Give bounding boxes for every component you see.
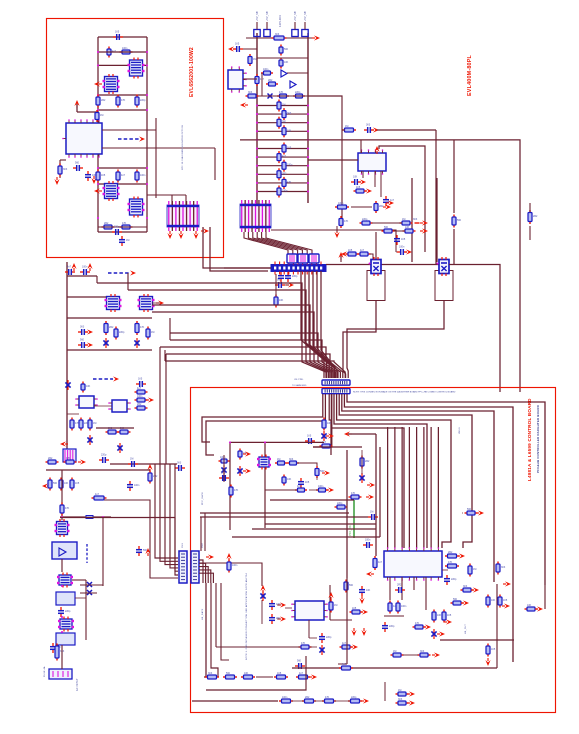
resistor R98 bbox=[525, 607, 538, 611]
resistor R35 bbox=[346, 252, 359, 256]
svg-text:100n: 100n bbox=[263, 68, 269, 71]
wire bbox=[462, 512, 463, 514]
resistor R63 bbox=[238, 449, 242, 460]
power port bbox=[156, 300, 164, 305]
svg-text:100n: 100n bbox=[137, 395, 143, 398]
wire bbox=[102, 517, 104, 586]
wire bbox=[85, 580, 87, 640]
filter block FL2 bbox=[56, 633, 75, 645]
resistor R109 bbox=[396, 692, 409, 696]
wire bbox=[170, 464, 178, 568]
wire bbox=[192, 700, 278, 702]
wire bbox=[297, 463, 317, 467]
dashed net by bridge bbox=[86, 544, 88, 563]
wire bbox=[215, 583, 217, 647]
svg-text:560: 560 bbox=[453, 598, 458, 601]
svg-text:560: 560 bbox=[282, 121, 287, 124]
junction node bbox=[307, 104, 309, 106]
wire bbox=[395, 242, 397, 252]
wire row5 bbox=[98, 167, 147, 169]
wire bbox=[60, 516, 111, 518]
wire bbox=[334, 394, 427, 548]
resistor R4 bbox=[116, 95, 120, 108]
svg-text:220p: 220p bbox=[114, 226, 120, 229]
power port bbox=[85, 342, 93, 347]
resistor R41 bbox=[135, 321, 139, 335]
svg-text:220p: 220p bbox=[140, 99, 146, 102]
svg-text:1K5: 1K5 bbox=[447, 614, 452, 617]
resistor R84 bbox=[461, 588, 474, 592]
svg-text:220p: 220p bbox=[337, 502, 343, 505]
power port bbox=[243, 468, 251, 473]
wire bbox=[277, 618, 280, 620]
resistor R83 bbox=[468, 564, 472, 577]
resistor R5 bbox=[135, 95, 139, 108]
wire row2 bbox=[98, 64, 147, 66]
svg-text:560: 560 bbox=[384, 226, 389, 229]
capacitor Cx10 bbox=[285, 272, 291, 282]
svg-text:2R2: 2R2 bbox=[48, 457, 53, 460]
junction node bbox=[256, 113, 258, 115]
capacitor C18 bbox=[383, 196, 389, 206]
svg-text:1M: 1M bbox=[151, 331, 154, 334]
svg-text:220p: 220p bbox=[295, 91, 301, 94]
svg-text:3K3: 3K3 bbox=[208, 672, 213, 675]
svg-text:47K: 47K bbox=[140, 326, 145, 329]
power port bbox=[351, 628, 356, 636]
wire bbox=[206, 656, 306, 690]
power port bbox=[367, 482, 375, 487]
resistor R68 bbox=[315, 466, 319, 478]
resistor R27 bbox=[354, 189, 367, 193]
resistor R72b bbox=[320, 444, 333, 448]
svg-text:1K5: 1K5 bbox=[356, 186, 361, 189]
junction node bbox=[146, 51, 148, 53]
svg-text:CN1: CN1 bbox=[182, 542, 184, 548]
wire bbox=[199, 573, 213, 583]
resistor R112 bbox=[48, 478, 52, 491]
transformer T1 bbox=[128, 58, 145, 79]
svg-text:NTC 10 OHM INRUSH LIMITER OPTI: NTC 10 OHM INRUSH LIMITER OPTION bbox=[182, 125, 184, 170]
resistor R86 bbox=[432, 610, 436, 623]
junction node bbox=[97, 94, 99, 96]
svg-text:10K: 10K bbox=[366, 589, 371, 592]
wire harness bbox=[257, 232, 302, 254]
connector bbox=[287, 254, 297, 263]
resistor R101 bbox=[223, 675, 237, 679]
wire bbox=[396, 251, 397, 253]
wire rung bbox=[257, 95, 308, 97]
svg-text:47K: 47K bbox=[122, 222, 127, 225]
wire bbox=[304, 22, 306, 30]
wire bbox=[257, 182, 308, 184]
power port bbox=[364, 188, 372, 193]
wire bbox=[252, 528, 376, 530]
svg-text:10K: 10K bbox=[64, 482, 69, 485]
ic bbox=[228, 66, 247, 93]
svg-text:47K: 47K bbox=[65, 507, 70, 510]
svg-text:47K: 47K bbox=[351, 492, 356, 495]
svg-text:100n: 100n bbox=[338, 202, 344, 205]
svg-text:+5V_SB: +5V_SB bbox=[305, 11, 307, 21]
diode DB2 bbox=[87, 590, 92, 595]
junction node bbox=[146, 217, 148, 219]
power port bbox=[404, 249, 412, 254]
wire bbox=[67, 349, 152, 351]
ic bbox=[75, 396, 98, 408]
svg-text:4n7: 4n7 bbox=[121, 174, 126, 177]
svg-text:1K5: 1K5 bbox=[101, 174, 106, 177]
power port bbox=[71, 263, 76, 271]
capacitor C42 bbox=[175, 465, 185, 471]
transistor Q4 bbox=[435, 257, 453, 301]
diode D6b bbox=[221, 465, 226, 475]
svg-text:4n7: 4n7 bbox=[360, 249, 365, 252]
capacitor C12 bbox=[80, 269, 90, 275]
transistor Q3 bbox=[367, 257, 385, 301]
power port bbox=[371, 127, 379, 132]
dashed net arrow bbox=[93, 376, 119, 381]
svg-text:100n: 100n bbox=[232, 564, 238, 567]
wire bbox=[331, 394, 404, 548]
capacitor C11b bbox=[78, 329, 88, 335]
wire bus in bbox=[224, 267, 271, 269]
wire bbox=[377, 129, 436, 131]
resistor R97 bbox=[465, 511, 478, 515]
power port bbox=[87, 263, 92, 271]
wire bbox=[412, 140, 520, 392]
wire harness bbox=[248, 232, 292, 254]
capacitor Cx9 bbox=[278, 272, 284, 282]
resistor R21 bbox=[246, 94, 259, 98]
capacitor C3 bbox=[73, 165, 83, 171]
resistor R115 bbox=[92, 496, 107, 500]
wire bbox=[97, 283, 326, 378]
connector bbox=[298, 254, 308, 263]
wire rung bbox=[257, 57, 308, 59]
wire bbox=[374, 171, 376, 187]
svg-text:2R2: 2R2 bbox=[268, 79, 273, 82]
wire bbox=[437, 427, 439, 548]
svg-text:1K5: 1K5 bbox=[235, 43, 240, 46]
wire bbox=[307, 33, 309, 203]
wire bbox=[294, 22, 296, 30]
resistor R32 bbox=[400, 221, 413, 225]
junction node bbox=[229, 441, 231, 443]
resistor R106 bbox=[322, 699, 336, 703]
svg-text:47K: 47K bbox=[66, 457, 71, 460]
wire bbox=[77, 111, 98, 113]
svg-text:2R2: 2R2 bbox=[397, 584, 402, 587]
connector bbox=[322, 380, 350, 385]
svg-text:220p: 220p bbox=[119, 331, 125, 334]
wire bbox=[361, 450, 363, 474]
resistor RL3 bbox=[277, 117, 281, 129]
junction node bbox=[97, 51, 99, 53]
power port bbox=[326, 487, 334, 492]
capacitor C11c bbox=[78, 342, 88, 348]
wire bbox=[353, 500, 355, 538]
svg-text:PFC_OK: PFC_OK bbox=[349, 525, 352, 536]
resistor R66 bbox=[229, 485, 233, 498]
wire bbox=[430, 427, 432, 548]
resistor R1 bbox=[107, 47, 111, 58]
svg-text:1M: 1M bbox=[334, 604, 337, 607]
resistor R8 bbox=[116, 170, 120, 183]
resistor R48 bbox=[135, 406, 148, 410]
resistor R29 bbox=[374, 201, 378, 213]
wire harness bbox=[253, 232, 298, 254]
connector J7a bbox=[179, 551, 187, 583]
wire bbox=[67, 275, 97, 277]
svg-text:220p: 220p bbox=[326, 636, 332, 639]
wire bbox=[199, 563, 262, 586]
wire bbox=[277, 604, 280, 606]
wire bbox=[384, 682, 386, 701]
wire bbox=[185, 195, 187, 205]
wire bbox=[436, 178, 438, 262]
svg-text:10K: 10K bbox=[284, 61, 289, 64]
wire bbox=[200, 516, 368, 518]
power port bbox=[437, 631, 445, 636]
svg-text:10K: 10K bbox=[491, 599, 496, 602]
wire bbox=[75, 597, 86, 599]
svg-text:100n: 100n bbox=[401, 605, 407, 608]
power port bbox=[146, 397, 154, 402]
svg-text:2R2: 2R2 bbox=[104, 222, 109, 225]
resistor R88 bbox=[388, 601, 392, 614]
bridge rectifier BR1 bbox=[52, 542, 77, 559]
capacitor C20 bbox=[298, 478, 304, 488]
wire harness bbox=[262, 232, 308, 254]
svg-text:EVL400M-80PL: EVL400M-80PL bbox=[467, 54, 473, 96]
wire bbox=[321, 271, 337, 378]
svg-text:1M: 1M bbox=[398, 689, 401, 692]
svg-text:3K3: 3K3 bbox=[177, 462, 182, 465]
wire row6 bbox=[98, 183, 147, 185]
svg-text:NOTE 1: FOR DETAILED CONNECTIO: NOTE 1: FOR DETAILED CONNECTION SEE APPL… bbox=[245, 573, 248, 660]
svg-text:2R2: 2R2 bbox=[109, 326, 114, 329]
transformer T2 bbox=[103, 74, 120, 94]
power port bbox=[407, 700, 415, 705]
svg-text:47K: 47K bbox=[279, 91, 284, 94]
junction node bbox=[307, 147, 309, 149]
capacitor C30 bbox=[295, 663, 305, 669]
svg-text:1K5: 1K5 bbox=[401, 238, 406, 241]
wire bbox=[110, 463, 177, 465]
inductor bbox=[57, 573, 73, 588]
wire bbox=[240, 139, 412, 141]
connector J3 center bus bar bbox=[271, 262, 326, 275]
resistor R92 bbox=[340, 645, 353, 649]
svg-text:560: 560 bbox=[284, 48, 289, 51]
capacitor C6 bbox=[119, 236, 125, 246]
wire bbox=[317, 271, 334, 378]
wire bbox=[230, 441, 324, 443]
svg-text:100n: 100n bbox=[134, 484, 140, 487]
svg-text:10K: 10K bbox=[287, 129, 292, 132]
power port bbox=[78, 459, 86, 464]
svg-text:3K3: 3K3 bbox=[366, 124, 371, 127]
wire bbox=[80, 592, 97, 594]
wire bbox=[257, 191, 308, 193]
junction node bbox=[97, 217, 99, 219]
power port bbox=[206, 554, 214, 559]
svg-text:10K: 10K bbox=[437, 614, 442, 617]
resistor R31 bbox=[360, 221, 373, 225]
junction node bbox=[307, 139, 309, 141]
svg-text:4n7: 4n7 bbox=[67, 266, 72, 269]
resistor R30 bbox=[339, 216, 343, 228]
power port bbox=[193, 231, 198, 239]
power port bbox=[350, 644, 358, 649]
resistor R45b bbox=[118, 430, 131, 434]
resistor RL6 bbox=[282, 143, 286, 155]
wire bbox=[342, 129, 345, 131]
wire bbox=[204, 513, 206, 551]
resistor R111 bbox=[64, 460, 77, 464]
svg-text:1M: 1M bbox=[100, 114, 103, 117]
power port bbox=[54, 177, 59, 185]
svg-text:100n: 100n bbox=[122, 47, 128, 50]
svg-text:47K: 47K bbox=[287, 181, 292, 184]
diode D4 bbox=[87, 435, 92, 445]
wire bbox=[256, 22, 258, 30]
svg-text:1M: 1M bbox=[473, 568, 476, 571]
power port bbox=[240, 102, 248, 107]
power port bbox=[338, 252, 343, 260]
wire bbox=[401, 427, 403, 548]
svg-text:560: 560 bbox=[75, 162, 80, 165]
svg-text:220p: 220p bbox=[65, 610, 71, 613]
resistor R40 bbox=[104, 321, 108, 335]
wire bbox=[313, 394, 332, 447]
junction node bbox=[307, 156, 309, 158]
wire bbox=[155, 118, 157, 198]
svg-text:1K5: 1K5 bbox=[307, 435, 312, 438]
power port bbox=[420, 220, 428, 225]
wire bbox=[169, 318, 171, 340]
wire bbox=[264, 442, 266, 528]
resistor R90b bbox=[391, 653, 404, 657]
wire ac drop bbox=[61, 470, 63, 520]
svg-text:560: 560 bbox=[349, 584, 354, 587]
power port bbox=[502, 603, 510, 608]
svg-text:560: 560 bbox=[467, 508, 472, 511]
resistor R102 bbox=[241, 675, 255, 679]
power port bbox=[358, 179, 366, 184]
capacitor C19 bbox=[305, 438, 315, 444]
wire bbox=[265, 523, 376, 525]
power port bbox=[278, 602, 286, 607]
resistor RV1 bbox=[255, 74, 259, 86]
wire bbox=[214, 148, 216, 180]
wire bbox=[313, 271, 332, 378]
wire bbox=[309, 271, 329, 378]
svg-text:220p: 220p bbox=[389, 625, 395, 628]
resistor Rx14 bbox=[279, 45, 283, 56]
power port bbox=[243, 451, 251, 456]
capacitor C5 bbox=[112, 229, 122, 235]
svg-text:1M: 1M bbox=[402, 218, 405, 221]
diode D10 bbox=[431, 629, 436, 639]
svg-text:1M: 1M bbox=[393, 650, 396, 653]
wire bbox=[60, 159, 66, 161]
power port bbox=[366, 571, 374, 576]
svg-text:4n7: 4n7 bbox=[378, 561, 383, 564]
diode D6 bbox=[237, 466, 242, 476]
svg-text:1M: 1M bbox=[130, 458, 133, 461]
resistor R85 bbox=[451, 601, 464, 605]
resistor RL4 bbox=[282, 125, 286, 137]
wire bbox=[496, 584, 498, 668]
wire bbox=[199, 560, 203, 583]
power port bbox=[94, 188, 102, 193]
wire bbox=[80, 584, 103, 586]
junction node bbox=[146, 167, 148, 169]
power port bbox=[366, 494, 374, 499]
wire bbox=[379, 146, 425, 252]
power port bbox=[322, 470, 330, 475]
svg-text:3K3: 3K3 bbox=[248, 91, 253, 94]
resistor R81 bbox=[445, 554, 459, 558]
wire bbox=[257, 173, 308, 175]
wire bbox=[403, 654, 418, 656]
junction node bbox=[307, 113, 309, 115]
wire bbox=[266, 22, 268, 30]
resistor RS1 bbox=[261, 71, 273, 75]
wire bbox=[200, 512, 349, 514]
resistor R105 bbox=[302, 699, 316, 703]
svg-text:TO MAIN BRD: TO MAIN BRD bbox=[292, 384, 307, 387]
wire bbox=[379, 447, 381, 537]
wire bbox=[337, 394, 451, 548]
wire bbox=[221, 583, 229, 660]
svg-text:2R2: 2R2 bbox=[101, 99, 106, 102]
resistor R41b bbox=[146, 327, 150, 340]
resistor R99 bbox=[486, 644, 490, 657]
wire bbox=[61, 645, 63, 669]
power port bbox=[503, 581, 511, 586]
svg-text:10K: 10K bbox=[244, 672, 249, 675]
wire bbox=[257, 165, 308, 167]
junction node bbox=[256, 130, 258, 132]
resistor R10 bbox=[102, 225, 115, 229]
wire rail right bbox=[146, 37, 148, 232]
power port bbox=[535, 606, 543, 611]
wire bbox=[96, 427, 134, 429]
junction node bbox=[97, 167, 99, 169]
svg-text:100n: 100n bbox=[220, 456, 226, 459]
resistor R100 bbox=[205, 675, 219, 679]
junction node bbox=[97, 64, 99, 66]
wire bbox=[199, 567, 208, 583]
svg-text:220p: 220p bbox=[351, 696, 357, 699]
wire bbox=[316, 477, 318, 480]
svg-text:47K: 47K bbox=[234, 489, 239, 492]
resistor R90 bbox=[413, 625, 426, 629]
capacitor C25 bbox=[382, 622, 388, 632]
capacitor C11 bbox=[65, 269, 75, 275]
svg-text:560: 560 bbox=[53, 482, 58, 485]
transistor QL1 bbox=[281, 70, 287, 77]
resistor RL7 bbox=[277, 151, 281, 163]
svg-text:4n7: 4n7 bbox=[342, 642, 347, 645]
capacitor C43 bbox=[127, 481, 133, 491]
wire bbox=[360, 668, 385, 701]
capacitor C7 bbox=[351, 179, 361, 185]
svg-text:3K3: 3K3 bbox=[501, 566, 506, 569]
